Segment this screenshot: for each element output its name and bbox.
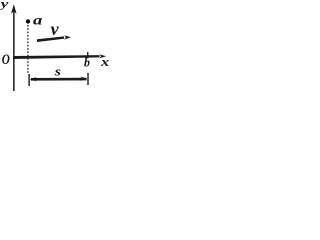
svg-text:b: b	[84, 55, 90, 69]
svg-text:s: s	[54, 65, 62, 79]
svg-text:y: y	[0, 0, 9, 11]
svg-text:O: O	[2, 51, 11, 68]
svg-text:v: v	[51, 19, 60, 39]
svg-text:x: x	[100, 55, 109, 69]
svg-text:a: a	[33, 12, 42, 28]
